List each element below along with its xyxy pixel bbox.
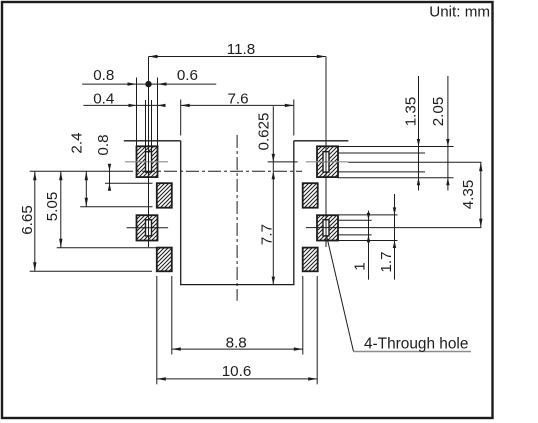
dim 8.8 xyxy=(172,334,303,351)
gray hole centerline right xyxy=(306,161,348,163)
dim 0.8 / 0.6 line xyxy=(82,67,216,86)
svg-text:0.8: 0.8 xyxy=(93,67,114,84)
lower hole centerline left xyxy=(127,227,169,229)
pad P2 left small xyxy=(157,183,172,208)
svg-text:7.6: 7.6 xyxy=(227,90,248,107)
svg-text:0.625: 0.625 xyxy=(256,112,273,150)
bottom extension lines xyxy=(171,276,173,355)
hole centerline extension to 4.35 dim xyxy=(348,161,481,163)
right top extension lines xyxy=(338,146,454,148)
svg-text:8.8: 8.8 xyxy=(226,334,247,351)
svg-text:7.7: 7.7 xyxy=(259,224,276,245)
svg-text:1: 1 xyxy=(352,262,369,270)
horizontal center line solid part xyxy=(30,170,120,172)
pad1 edge extension lines xyxy=(136,78,138,147)
svg-text:1.7: 1.7 xyxy=(378,251,395,272)
svg-text:2.05: 2.05 xyxy=(430,97,447,127)
right hole vertical centerline xyxy=(325,57,327,248)
dim 4.35 xyxy=(460,162,482,227)
svg-text:11.8: 11.8 xyxy=(227,41,255,58)
dim 7.6 line xyxy=(181,90,294,107)
pad R1 top-right with hole xyxy=(317,146,338,177)
svg-text:4.35: 4.35 xyxy=(460,180,477,210)
dim 0.625 / 7.7 vertical line xyxy=(256,106,276,284)
svg-text:1.35: 1.35 xyxy=(403,97,420,127)
left dim stack reference handled above; dim 6.65 xyxy=(19,171,36,271)
dim 10.6 xyxy=(157,363,317,381)
extension 0.8 row xyxy=(105,182,153,184)
extension 2.4 row xyxy=(80,206,152,208)
dim 0.4 line xyxy=(83,90,165,107)
lower hole centerline right long xyxy=(306,227,481,229)
dim 11.8 line xyxy=(149,41,326,58)
reference dot xyxy=(145,81,151,87)
dim 1.35 xyxy=(403,76,421,191)
dim 1 xyxy=(352,211,371,280)
pad R3 lower-right with hole xyxy=(317,215,338,240)
7.6 extension lines xyxy=(180,100,182,136)
svg-text:0.8: 0.8 xyxy=(95,134,112,155)
svg-text:10.6: 10.6 xyxy=(222,363,252,380)
through-hole leader line xyxy=(327,236,354,352)
svg-text:5.05: 5.05 xyxy=(44,192,61,222)
pad R4 right small xyxy=(303,248,318,272)
dim 2.05 xyxy=(430,76,450,191)
leader underline xyxy=(354,351,472,353)
body top-left wing xyxy=(124,140,181,142)
dim 1.7 xyxy=(378,194,396,280)
pad P3 lower-left with hole xyxy=(137,215,158,240)
vertical center line dash-dot xyxy=(236,135,238,301)
pad P4 left small xyxy=(157,248,172,272)
horizontal center line dash-dot xyxy=(120,170,302,172)
hole edge extension lines xyxy=(145,100,147,152)
gray hole centerline left xyxy=(125,161,168,163)
left hole vertical centerline xyxy=(148,57,150,248)
svg-text:6.65: 6.65 xyxy=(19,205,36,235)
svg-text:Unit: mm: Unit: mm xyxy=(429,4,490,21)
svg-text:0.6: 0.6 xyxy=(177,67,198,84)
extension 6.65 row xyxy=(30,270,152,272)
pad P1 top-left with hole xyxy=(137,146,158,177)
0.625 extension line xyxy=(268,161,298,163)
pad R2 right small xyxy=(303,183,318,208)
body outline left/bottom/right xyxy=(181,141,294,285)
dim 5.05 xyxy=(44,171,62,248)
body top-right wing xyxy=(294,140,349,142)
dim 0.8 left xyxy=(95,134,112,190)
extension 5.05 row xyxy=(57,247,157,249)
svg-text:0.4: 0.4 xyxy=(93,90,114,107)
right lower extension lines xyxy=(338,214,397,216)
dim 2.4 xyxy=(69,132,88,206)
svg-text:4-Through hole: 4-Through hole xyxy=(364,335,468,352)
svg-text:2.4: 2.4 xyxy=(69,132,86,153)
